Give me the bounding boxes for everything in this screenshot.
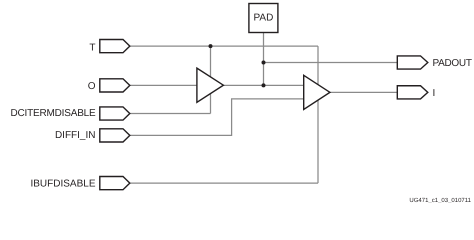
svg-text:PADOUT: PADOUT [433, 58, 472, 69]
wire PADOUT [264, 62, 398, 64]
port I [397, 86, 428, 99]
buffer U2 input buffer [304, 75, 330, 109]
svg-text:UG471_c1_03_010711: UG471_c1_03_010711 [409, 197, 471, 203]
wire O to buffer 1 [130, 84, 198, 86]
port DCITERMDISABLE [100, 107, 130, 120]
svg-text:I: I [433, 88, 436, 99]
svg-text:DCITERMDISABLE: DCITERMDISABLE [11, 108, 97, 119]
wire PAD net buffer1 output to buffer2 input [223, 84, 304, 86]
port O [100, 79, 130, 92]
buffer U1 output buffer [197, 68, 224, 102]
junction T [209, 44, 213, 48]
port PADOUT [397, 56, 428, 69]
port T [100, 40, 130, 53]
wire I output [329, 91, 398, 93]
wire T horizontal [130, 45, 319, 47]
svg-text:O: O [88, 81, 96, 92]
svg-text:DIFFI_IN: DIFFI_IN [55, 130, 96, 141]
wire DIFFI_IN [130, 99, 305, 135]
junction PADOUT tap [262, 61, 266, 65]
PAD box [249, 4, 278, 33]
wire IBUFDISABLE horizontal [130, 182, 319, 184]
port DIFFI_IN [100, 129, 130, 142]
junction PAD net [262, 83, 266, 87]
svg-text:PAD: PAD [253, 13, 273, 24]
wire T/IBUFDISABLE vertical through buffer 2 [317, 46, 319, 183]
svg-text:IBUFDISABLE: IBUFDISABLE [30, 179, 95, 190]
wire PAD vertical [263, 33, 265, 86]
svg-text:T: T [89, 43, 95, 54]
wire T/DCITERMDISABLE vertical through buffer 1 [210, 46, 212, 113]
wire DCITERMDISABLE horizontal [130, 113, 211, 115]
port IBUFDISABLE [100, 177, 130, 190]
